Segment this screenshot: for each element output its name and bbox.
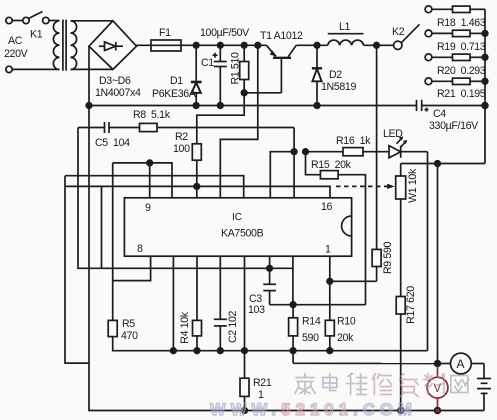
wire AC bottom to transformer primary xyxy=(12,68,59,70)
svg-text:8: 8 xyxy=(137,243,143,255)
resistor R8 5.1k xyxy=(109,123,294,131)
svg-text:R21 0.195: R21 0.195 xyxy=(437,88,486,100)
resistor R21 0.195 xyxy=(432,78,485,84)
wiper arrowhead xyxy=(387,184,395,189)
svg-text:1N4007x4: 1N4007x4 xyxy=(95,87,141,99)
terminal R21 tap xyxy=(425,78,432,85)
resistor R1 510 xyxy=(240,45,249,93)
resistor R5 470 xyxy=(108,320,427,350)
AC input terminal bottom xyxy=(6,66,12,72)
harness vertical x101.5 xyxy=(101,186,103,268)
node D2 top rail junction is at 317,45.3 xyxy=(314,43,320,49)
zener D1 P6KE36A xyxy=(191,45,202,105)
node R1 top xyxy=(241,43,247,49)
resistor R19 0.713 xyxy=(432,30,485,36)
node feed top xyxy=(255,43,261,49)
svg-text:P6KE36A: P6KE36A xyxy=(152,88,197,100)
potentiometer W1 10k xyxy=(396,164,406,297)
node C1 top xyxy=(218,43,224,49)
capacitor C3 103 xyxy=(263,284,276,304)
harness vertical x89 bridge minus to bottom rail xyxy=(89,106,484,411)
svg-text:470: 470 xyxy=(121,330,138,342)
AC input terminal top xyxy=(6,17,12,23)
svg-text:F1: F1 xyxy=(159,27,171,39)
svg-text:D2: D2 xyxy=(329,69,342,81)
svg-text:R21: R21 xyxy=(253,377,272,389)
svg-text:1: 1 xyxy=(325,244,331,256)
svg-text:R8 5.1k: R8 5.1k xyxy=(133,109,171,121)
svg-text:R14: R14 xyxy=(302,316,321,328)
wire A/V vertical xyxy=(437,164,439,364)
svg-text:C1: C1 xyxy=(201,57,214,69)
node C1 bottom xyxy=(218,103,224,109)
wire node to pin14 xyxy=(270,152,294,198)
svg-text:C4: C4 xyxy=(433,108,446,120)
svg-text:R20 0.293: R20 0.293 xyxy=(437,65,486,77)
svg-text:R10: R10 xyxy=(337,316,356,328)
wire bridge minus down to lower rail xyxy=(88,46,90,105)
node base link xyxy=(241,90,247,96)
wire pin bottom x197 R4 xyxy=(196,256,198,320)
svg-text:20k: 20k xyxy=(337,332,354,344)
harness vertical x78 C5 to long line xyxy=(78,128,293,269)
node D2 bottom xyxy=(314,103,320,109)
node R15 branch xyxy=(303,149,309,155)
node R21 right xyxy=(482,79,488,85)
wire node to R16/R15 xyxy=(293,128,295,152)
svg-text:1N5819: 1N5819 xyxy=(321,81,356,93)
node pin9 xyxy=(147,160,153,166)
capacitor C5 104 xyxy=(105,122,110,133)
inductor L1 xyxy=(328,34,364,46)
resistor R4 10k xyxy=(193,320,202,350)
transformer core xyxy=(62,20,64,71)
feed wire from top rail node down xyxy=(220,45,257,198)
wire R9 bottom link xyxy=(330,280,377,282)
wire branch to pin8 xyxy=(113,256,151,280)
svg-text:R5: R5 xyxy=(122,318,135,330)
voltmeter V xyxy=(427,366,448,411)
svg-text:AC: AC xyxy=(8,35,23,47)
terminal R20 xyxy=(425,54,432,61)
node C3 top line xyxy=(267,266,273,272)
node R19 right xyxy=(482,31,488,37)
watermark chinese 家电维修资料网 xyxy=(295,374,469,397)
right rail xyxy=(484,9,486,163)
svg-text:330µF/16V: 330µF/16V xyxy=(429,120,479,132)
wire pin bottom x244.5 R21 xyxy=(244,256,246,351)
svg-text:R1 510: R1 510 xyxy=(230,52,242,85)
svg-text:W1 10k: W1 10k xyxy=(407,168,419,203)
capacitor C2 102 xyxy=(214,319,227,350)
svg-text:IC: IC xyxy=(232,212,242,223)
wire pin bottom x173.4 xyxy=(172,256,174,351)
top rail xyxy=(181,44,267,46)
wire pin bottom x292.9 xyxy=(292,256,294,305)
wire H3 xyxy=(65,186,330,197)
svg-text:R15 20k: R15 20k xyxy=(311,159,352,171)
switch K1 xyxy=(12,12,49,24)
svg-text:R17 620: R17 620 xyxy=(405,286,417,324)
svg-text:D3~D6: D3~D6 xyxy=(99,75,131,87)
wire secondary top to bridge xyxy=(71,20,113,22)
node lower rail at bridge xyxy=(86,103,92,109)
IC U1 KA7500B box xyxy=(124,198,351,256)
wire H1 pin9/pin10 xyxy=(113,163,172,198)
wire R2 step xyxy=(197,93,244,144)
svg-text:K2: K2 xyxy=(392,26,405,38)
LED xyxy=(363,136,428,157)
node R2 on H3 xyxy=(194,184,200,190)
resistor R16 1k xyxy=(306,148,364,156)
node R14 top xyxy=(290,302,296,308)
svg-text:L1: L1 xyxy=(339,21,351,33)
node C4 right xyxy=(482,103,488,109)
svg-text:100µF/50V: 100µF/50V xyxy=(200,27,250,39)
wire K1 to transformer primary xyxy=(49,20,60,22)
nodes on ground rail xyxy=(171,348,177,354)
top rail after T1 xyxy=(296,44,328,46)
capacitor C4 330uF/16V xyxy=(417,100,486,112)
node V bottom xyxy=(435,408,441,414)
svg-text:R9 590: R9 590 xyxy=(382,242,394,275)
wiper dashed line xyxy=(336,185,388,187)
wire pin1 down xyxy=(329,256,331,320)
terminal R19 xyxy=(425,30,432,37)
switch K2 xyxy=(394,24,420,49)
svg-text:1: 1 xyxy=(258,389,264,401)
svg-text:16: 16 xyxy=(321,201,333,213)
node L1/K2 xyxy=(374,43,380,49)
battery xyxy=(477,364,491,411)
wire pin bottom x269.6 xyxy=(269,256,271,284)
svg-text:220V: 220V xyxy=(4,48,29,60)
resistor R10 20k xyxy=(325,320,334,350)
capacitor C1 100uF/50V xyxy=(213,45,227,105)
wire W1 top line xyxy=(401,163,485,165)
wire secondary bottom to bridge xyxy=(71,68,113,70)
harness vertical x113 H1 to R5 xyxy=(112,163,114,321)
node R21 bottom xyxy=(242,408,248,414)
wire pin15 xyxy=(293,152,295,198)
wire C5/R8 line xyxy=(78,127,105,129)
svg-text:WWW.52101.COM: WWW.52101.COM xyxy=(210,401,417,419)
wire H2 xyxy=(65,176,244,198)
wire bridge plus to fuse xyxy=(137,44,152,46)
node A/V branch xyxy=(435,161,441,167)
transformer secondary winding xyxy=(71,21,77,70)
node R16 line left xyxy=(291,149,297,155)
bridge rectifier D3~D6 xyxy=(89,21,137,70)
resistor R20 0.293 xyxy=(432,54,485,60)
node D1 top xyxy=(193,43,199,49)
svg-text:R19 0.713: R19 0.713 xyxy=(437,41,486,53)
svg-text:A: A xyxy=(457,357,465,371)
wire base link xyxy=(244,92,281,94)
wire pin9 stub xyxy=(149,163,151,198)
svg-text:C2 102: C2 102 xyxy=(227,311,239,344)
node meters junction xyxy=(435,361,441,367)
svg-text:LED: LED xyxy=(383,128,403,140)
wire pin bottom x220.3 C2 xyxy=(219,256,221,319)
wire L1 to K2 node xyxy=(364,44,394,46)
IC notch xyxy=(342,216,352,236)
resistor R2 100 xyxy=(192,144,201,198)
svg-text:D1: D1 xyxy=(170,75,183,87)
svg-text:103: 103 xyxy=(248,304,265,316)
svg-text:K1: K1 xyxy=(30,29,43,41)
resistor R14 590 xyxy=(289,305,298,364)
diode D2 1N5819 xyxy=(312,45,322,105)
svg-text:R2: R2 xyxy=(175,131,188,143)
wire C3 bottom line xyxy=(270,304,366,306)
svg-text:R18 1.463: R18 1.463 xyxy=(437,17,486,29)
wire sense line to meters xyxy=(293,362,438,364)
resistor R15 20k xyxy=(306,152,366,305)
svg-text:100: 100 xyxy=(173,143,190,155)
node D1 bottom xyxy=(193,103,199,109)
watermark url WWW.52101.COM xyxy=(210,401,417,419)
node R20 right xyxy=(482,55,488,61)
node pin1/R9 xyxy=(327,279,333,285)
svg-text:R4 10k: R4 10k xyxy=(179,311,191,344)
lower rail xyxy=(89,105,417,107)
node R17 bottom xyxy=(398,408,404,414)
wire LED cathode down to bottom rail xyxy=(427,152,429,351)
svg-text:KA7500B: KA7500B xyxy=(221,228,264,240)
svg-text:C5 104: C5 104 xyxy=(95,137,130,149)
terminal R18 xyxy=(425,6,432,13)
resistor R9 590 xyxy=(372,45,381,281)
svg-text:9: 9 xyxy=(145,202,151,214)
svg-text:590: 590 xyxy=(302,332,319,344)
resistor R17 620 xyxy=(396,297,405,411)
resistor R21 1 xyxy=(240,351,249,411)
svg-text:T1 A1012: T1 A1012 xyxy=(260,30,303,42)
resistor R18 1.463 xyxy=(432,6,485,12)
fuse F1 xyxy=(151,40,181,51)
svg-text:R16 1k: R16 1k xyxy=(336,135,371,147)
ammeter A xyxy=(438,353,485,374)
transformer primary winding xyxy=(53,21,59,70)
transistor T1 A1012 xyxy=(267,45,297,93)
harness vertical x65 xyxy=(65,176,89,363)
